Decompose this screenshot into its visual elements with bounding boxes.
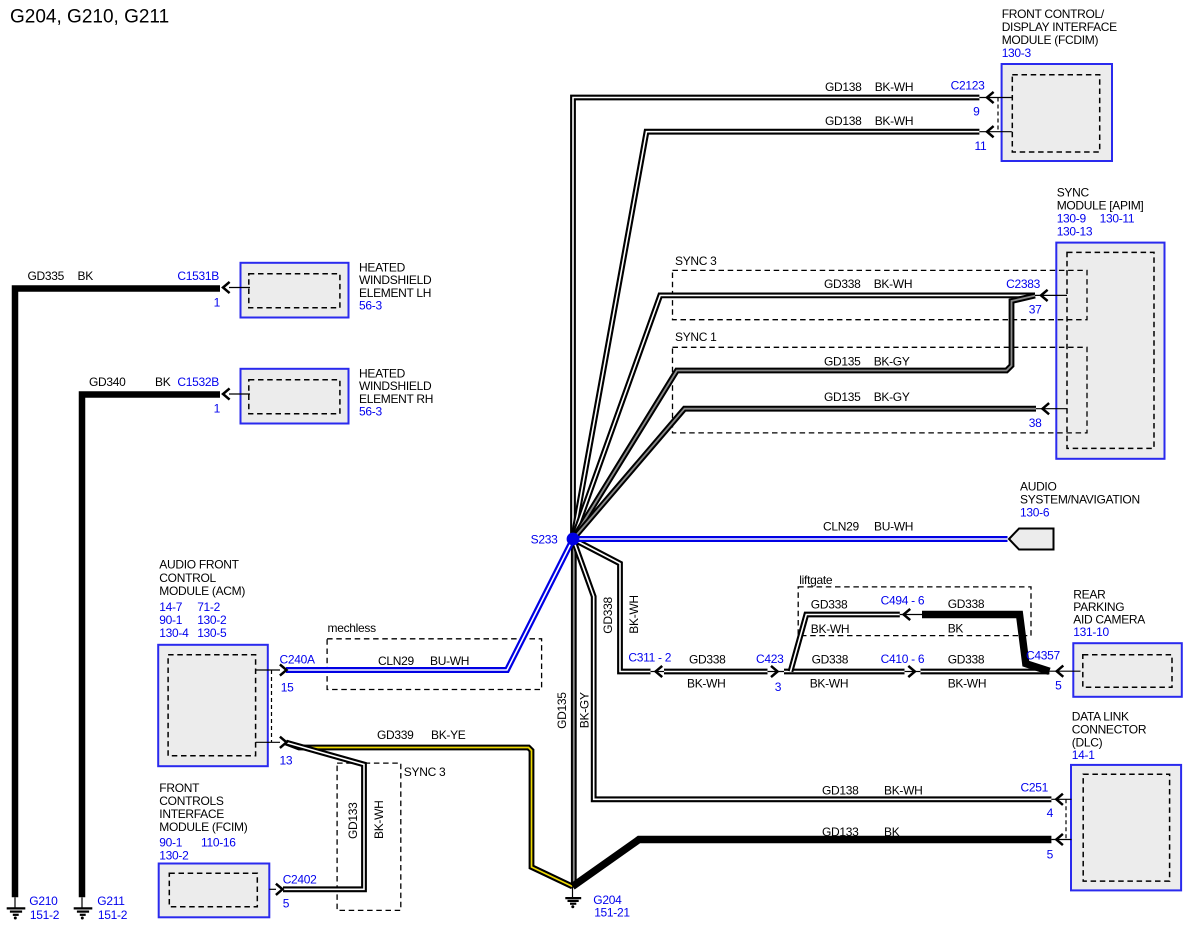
svg-text:C4357: C4357 bbox=[1026, 648, 1060, 662]
pin C2383 pin 37 arrow bbox=[1035, 290, 1067, 301]
wire GD138 BK-WH S233 to FCDIM pin 11 bbox=[573, 132, 979, 539]
svg-text:AUDIO FRONT: AUDIO FRONT bbox=[159, 558, 239, 572]
label wire GD338 BK-WH (C423-C410) bbox=[810, 653, 849, 691]
svg-text:CONTROLS: CONTROLS bbox=[159, 794, 224, 808]
label wire GD138 BK-WH (pin 11) bbox=[825, 114, 913, 128]
svg-text:C1532B: C1532B bbox=[177, 375, 219, 389]
svg-text:90-1: 90-1 bbox=[159, 835, 182, 849]
label connector C2383 pin 37 bbox=[1006, 277, 1042, 317]
label wire GD138 BK-WH (pin 9) bbox=[825, 80, 913, 94]
label wire GD133 BK (to DLC) bbox=[822, 825, 900, 839]
label wire GD339 BK-YE bbox=[377, 728, 466, 742]
label wire GD338 BK-WH (pin 37) bbox=[824, 277, 912, 291]
svg-text:SYNC: SYNC bbox=[1057, 185, 1090, 199]
label HEATED WINDSHIELD ELEMENT LH 56-3 bbox=[359, 260, 432, 312]
label FRONT CONTROL/DISPLAY INTERFACE MODULE (FCDIM) 130-3 bbox=[1002, 7, 1117, 60]
pin C2123 pin 11 arrow bbox=[979, 126, 1011, 137]
label wire GD338 BK-WH (C311-C423) bbox=[687, 653, 726, 691]
pin C2402 pin 5 arrow bbox=[269, 884, 282, 895]
svg-text:71-2: 71-2 bbox=[197, 600, 220, 614]
svg-text:5: 5 bbox=[1047, 848, 1054, 862]
svg-text:BK-WH: BK-WH bbox=[875, 80, 914, 94]
module ACM box bbox=[158, 645, 268, 766]
label wire GD340 BK bbox=[89, 375, 171, 389]
svg-text:5: 5 bbox=[283, 897, 290, 911]
svg-text:GD338: GD338 bbox=[689, 653, 726, 667]
label HEATED WINDSHIELD ELEMENT RH 56-3 bbox=[359, 366, 433, 418]
svg-text:BK-WH: BK-WH bbox=[874, 277, 913, 291]
wire GD133 BK-WH ACM pin 13 to FCIM C2402 pin 5 bbox=[283, 743, 364, 890]
label connector C1531B pin 1 bbox=[177, 269, 220, 309]
svg-text:56-3: 56-3 bbox=[359, 299, 382, 313]
svg-text:130-6: 130-6 bbox=[1020, 505, 1050, 519]
connector C311 arrow bbox=[651, 666, 665, 677]
svg-text:GD335: GD335 bbox=[28, 269, 65, 283]
module HEATED WINDSHIELD ELEMENT LH box bbox=[241, 263, 349, 318]
connector dashed line DLC pins 4-5 bbox=[1065, 799, 1067, 839]
label connector C2123 pins 9 11 bbox=[951, 79, 987, 153]
pin C251 pin 4 arrow bbox=[1051, 794, 1071, 805]
label AUDIO SYSTEM/NAVIGATION 130-6 bbox=[1020, 479, 1140, 519]
svg-text:15: 15 bbox=[281, 681, 294, 695]
svg-text:110-16: 110-16 bbox=[201, 835, 236, 849]
ground G210 symbol bbox=[7, 897, 26, 919]
label AUDIO FRONT CONTROL MODULE (ACM) pages bbox=[159, 558, 245, 640]
svg-text:4: 4 bbox=[1047, 806, 1054, 820]
wire GD335 BK (to G210) bbox=[15, 289, 220, 898]
svg-text:C251: C251 bbox=[1021, 780, 1049, 794]
svg-text:130-2: 130-2 bbox=[159, 848, 189, 862]
wire GD339 BK-YE ACM pin 13 to G204 bbox=[286, 743, 573, 887]
ground G204 symbol bbox=[565, 887, 581, 909]
svg-text:11: 11 bbox=[975, 139, 987, 153]
svg-text:C494 - 6: C494 - 6 bbox=[881, 594, 925, 608]
splice S233 bbox=[567, 533, 580, 546]
wire GD338 BK thick C494 to C4357 pin 5 bbox=[922, 615, 1049, 672]
svg-text:130-9: 130-9 bbox=[1057, 211, 1087, 225]
svg-text:56-3: 56-3 bbox=[359, 405, 382, 419]
svg-text:GD340: GD340 bbox=[89, 375, 126, 389]
label DATA LINK CONNECTOR (DLC) 14-1 bbox=[1072, 710, 1147, 762]
svg-text:AUDIO: AUDIO bbox=[1020, 479, 1057, 493]
module SYNC [APIM] box bbox=[1056, 243, 1164, 459]
svg-text:130-4: 130-4 bbox=[159, 626, 189, 640]
group box SYNC 3 (bottom) bbox=[337, 763, 401, 910]
module DLC box bbox=[1071, 765, 1181, 891]
svg-text:MODULE [APIM]: MODULE [APIM] bbox=[1057, 198, 1144, 212]
svg-text:130-13: 130-13 bbox=[1057, 224, 1093, 238]
svg-text:BK-WH: BK-WH bbox=[810, 676, 849, 690]
svg-text:SYNC 3: SYNC 3 bbox=[404, 765, 446, 779]
connector C423 arrow bbox=[768, 666, 785, 677]
pin C240A pin 15 arrow bbox=[256, 664, 287, 675]
wire GD338 BK-WH S233 to C311 bbox=[573, 539, 651, 672]
svg-text:DISPLAY INTERFACE: DISPLAY INTERFACE bbox=[1002, 20, 1117, 34]
module FCDIM box bbox=[1002, 64, 1112, 161]
svg-text:C1531B: C1531B bbox=[177, 269, 219, 283]
svg-text:14-1: 14-1 bbox=[1072, 748, 1095, 762]
svg-text:BU-WH: BU-WH bbox=[430, 654, 469, 668]
label ground G204 151-21 bbox=[593, 893, 630, 920]
svg-text:130-3: 130-3 bbox=[1002, 46, 1032, 60]
svg-text:C2402: C2402 bbox=[283, 873, 317, 887]
svg-text:MODULE (FCIM): MODULE (FCIM) bbox=[159, 820, 247, 834]
svg-text:G204, G210, G211: G204, G210, G211 bbox=[10, 7, 169, 28]
svg-text:GD338: GD338 bbox=[812, 653, 849, 667]
svg-text:GD338: GD338 bbox=[811, 598, 848, 612]
svg-text:GD135: GD135 bbox=[555, 692, 569, 729]
wire GD338 BK-WH C423 to C410 bbox=[784, 669, 905, 675]
svg-text:MODULE (ACM): MODULE (ACM) bbox=[159, 584, 245, 598]
svg-text:C311 - 2: C311 - 2 bbox=[628, 651, 671, 665]
svg-text:3: 3 bbox=[775, 680, 782, 694]
svg-text:S233: S233 bbox=[531, 532, 558, 546]
svg-text:BK-WH: BK-WH bbox=[372, 801, 386, 840]
wire GD338 BK-WH C410 to C4357 pin 5 bbox=[921, 669, 1050, 675]
svg-text:GD138: GD138 bbox=[825, 114, 862, 128]
svg-text:C2123: C2123 bbox=[951, 79, 985, 93]
module FCIM box bbox=[159, 864, 270, 918]
svg-text:C423: C423 bbox=[756, 652, 784, 666]
wire GD135 BK-GY S233 to C2383 pin 37 (SYNC 1) bbox=[573, 296, 1035, 539]
svg-text:13: 13 bbox=[280, 754, 293, 768]
label wire GD338 BK-WH (liftgate left) bbox=[811, 598, 850, 636]
connector dashed line C240A pins 15-13 bbox=[271, 670, 273, 742]
svg-text:37: 37 bbox=[1029, 303, 1042, 317]
pin C1532B pin 1 arrow bbox=[223, 388, 250, 399]
svg-text:C410 - 6: C410 - 6 bbox=[881, 652, 925, 666]
svg-text:CLN29: CLN29 bbox=[378, 654, 414, 668]
svg-text:GD133: GD133 bbox=[346, 802, 360, 839]
svg-text:C240A: C240A bbox=[280, 653, 315, 667]
svg-text:GD138: GD138 bbox=[822, 783, 859, 797]
svg-text:BK-WH: BK-WH bbox=[948, 676, 987, 690]
group box SYNC 1 bbox=[673, 347, 1088, 433]
svg-text:BK-WH: BK-WH bbox=[627, 595, 641, 634]
ground G211 symbol bbox=[74, 897, 93, 919]
svg-text:BK-WH: BK-WH bbox=[875, 114, 914, 128]
group box SYNC 3 (top) bbox=[673, 270, 1088, 319]
connector C410 arrow bbox=[905, 666, 921, 677]
label wire GD338 BK (liftgate right) bbox=[948, 597, 985, 635]
svg-text:5: 5 bbox=[1055, 678, 1062, 692]
label ground G210 151-2 bbox=[29, 894, 59, 922]
label connector C240A pin 15 bbox=[280, 653, 315, 695]
label FRONT CONTROLS INTERFACE MODULE (FCIM) pages bbox=[159, 781, 247, 862]
pin C4357 pin 5 arrow bbox=[1049, 666, 1080, 677]
label wire CLN29 BU-WH (mechless) bbox=[378, 654, 469, 668]
svg-text:GD135: GD135 bbox=[824, 355, 861, 369]
connector AUDIO SYSTEM/NAVIGATION pentagon bbox=[1009, 529, 1054, 550]
svg-text:SYSTEM/NAVIGATION: SYSTEM/NAVIGATION bbox=[1020, 492, 1140, 506]
group box liftgate bbox=[798, 587, 1031, 636]
label connector C1532B pin 1 bbox=[177, 375, 220, 415]
svg-text:SYNC 1: SYNC 1 bbox=[675, 330, 717, 344]
svg-text:GD338: GD338 bbox=[948, 653, 985, 667]
svg-text:GD338: GD338 bbox=[601, 597, 615, 634]
svg-text:GD339: GD339 bbox=[377, 728, 414, 742]
svg-text:SYNC 3: SYNC 3 bbox=[675, 254, 717, 268]
svg-text:G210: G210 bbox=[29, 894, 58, 908]
group box mechless bbox=[327, 639, 541, 690]
svg-text:1: 1 bbox=[214, 401, 221, 415]
svg-text:9: 9 bbox=[973, 104, 980, 118]
svg-text:BK: BK bbox=[155, 375, 171, 389]
label wire GD135 BK-GY (SYNC 1) bbox=[824, 355, 910, 369]
module REAR PARKING AID CAMERA box bbox=[1073, 643, 1182, 697]
svg-text:BK: BK bbox=[884, 825, 900, 839]
svg-text:BK-YE: BK-YE bbox=[431, 728, 466, 742]
svg-text:GD138: GD138 bbox=[825, 80, 862, 94]
svg-text:C2383: C2383 bbox=[1006, 277, 1040, 291]
connector dashed line C2123 pins 9-11 bbox=[997, 98, 999, 132]
wire GD135 BK-GY S233 down to G204 bbox=[571, 539, 577, 887]
svg-text:CLN29: CLN29 bbox=[823, 520, 859, 534]
svg-text:liftgate: liftgate bbox=[799, 573, 833, 587]
svg-text:BK: BK bbox=[948, 621, 964, 635]
svg-text:GD338: GD338 bbox=[948, 597, 985, 611]
label REAR PARKING AID CAMERA 131-10 bbox=[1073, 588, 1145, 640]
wire GD340 BK (to G211) bbox=[82, 395, 220, 898]
pin C251 pin 5 arrow bbox=[1051, 834, 1071, 845]
svg-text:151-2: 151-2 bbox=[98, 908, 128, 922]
label wire GD135 BK-GY (pin 38) bbox=[824, 390, 910, 404]
label wire CLN29 BU-WH (to audio) bbox=[823, 520, 913, 534]
svg-text:151-2: 151-2 bbox=[30, 908, 60, 922]
label SYNC MODULE [APIM] 130-9 130-11 130-13 bbox=[1057, 185, 1144, 238]
label connector C2402 pin 5 bbox=[283, 873, 317, 911]
svg-text:BK-WH: BK-WH bbox=[811, 622, 850, 636]
svg-text:14-7: 14-7 bbox=[159, 600, 182, 614]
module HEATED WINDSHIELD ELEMENT RH box bbox=[241, 369, 349, 424]
svg-text:BK-GY: BK-GY bbox=[874, 390, 910, 404]
pin C240A pin 13 arrow bbox=[256, 737, 287, 748]
wire GD138 BK-WH S233 to DLC C251 pin 4 bbox=[573, 539, 1051, 799]
wire GD135 BK-GY S233 to C2383 pin 38 bbox=[573, 409, 1036, 539]
svg-text:GD133: GD133 bbox=[822, 825, 859, 839]
label wire GD138 BK-WH (to DLC) bbox=[822, 783, 923, 797]
wire GD338 BK-WH C311 to C423 bbox=[664, 669, 768, 675]
svg-text:G211: G211 bbox=[97, 894, 125, 908]
svg-text:FRONT: FRONT bbox=[159, 781, 200, 795]
svg-text:BK-GY: BK-GY bbox=[578, 692, 592, 728]
svg-text:131-10: 131-10 bbox=[1073, 625, 1109, 639]
svg-text:GD135: GD135 bbox=[824, 390, 861, 404]
svg-text:MODULE (FCDIM): MODULE (FCDIM) bbox=[1002, 33, 1099, 47]
pin C2383 pin 38 arrow bbox=[1036, 403, 1067, 414]
label connector C423 pin 3 bbox=[756, 652, 784, 694]
svg-text:BK-WH: BK-WH bbox=[884, 783, 923, 797]
wire GD138 BK-WH S233 to FCDIM pin 9 bbox=[573, 98, 979, 540]
svg-text:BK: BK bbox=[78, 269, 94, 283]
label ground G211 151-2 bbox=[97, 894, 127, 922]
svg-text:BK-GY: BK-GY bbox=[874, 355, 910, 369]
connector C494 arrow bbox=[900, 609, 922, 620]
wire CLN29 BU-WH ACM pin 15 through S233 to audio system bbox=[286, 539, 1008, 670]
svg-text:151-21: 151-21 bbox=[594, 906, 630, 920]
svg-text:BU-WH: BU-WH bbox=[874, 520, 913, 534]
svg-text:130-5: 130-5 bbox=[197, 626, 227, 640]
pin C2123 pin 9 arrow bbox=[979, 92, 1011, 103]
pin C1531B pin 1 arrow bbox=[223, 282, 250, 293]
svg-text:1: 1 bbox=[214, 295, 221, 309]
svg-text:130-11: 130-11 bbox=[1100, 211, 1135, 225]
svg-text:BK-WH: BK-WH bbox=[687, 676, 726, 690]
wire GD133 BK thick G204 to DLC C251 pin 5 bbox=[573, 840, 1052, 887]
wire GD338 BK-WH C423 branch up to C494 (liftgate) bbox=[791, 615, 900, 672]
label wire GD338 BK-WH (C410-C4357) bbox=[948, 653, 987, 691]
svg-text:mechless: mechless bbox=[328, 621, 377, 635]
svg-text:FRONT CONTROL/: FRONT CONTROL/ bbox=[1002, 7, 1105, 21]
label connector C251 pin 4 bbox=[1021, 780, 1054, 820]
wire GD338 BK-WH S233 to C2383 pin 37 bbox=[573, 295, 1035, 539]
svg-text:38: 38 bbox=[1029, 416, 1042, 430]
label connector C4357 pin 5 bbox=[1026, 648, 1062, 692]
svg-text:INTERFACE: INTERFACE bbox=[159, 807, 224, 821]
label wire GD335 BK bbox=[28, 269, 94, 283]
svg-text:GD338: GD338 bbox=[824, 277, 861, 291]
